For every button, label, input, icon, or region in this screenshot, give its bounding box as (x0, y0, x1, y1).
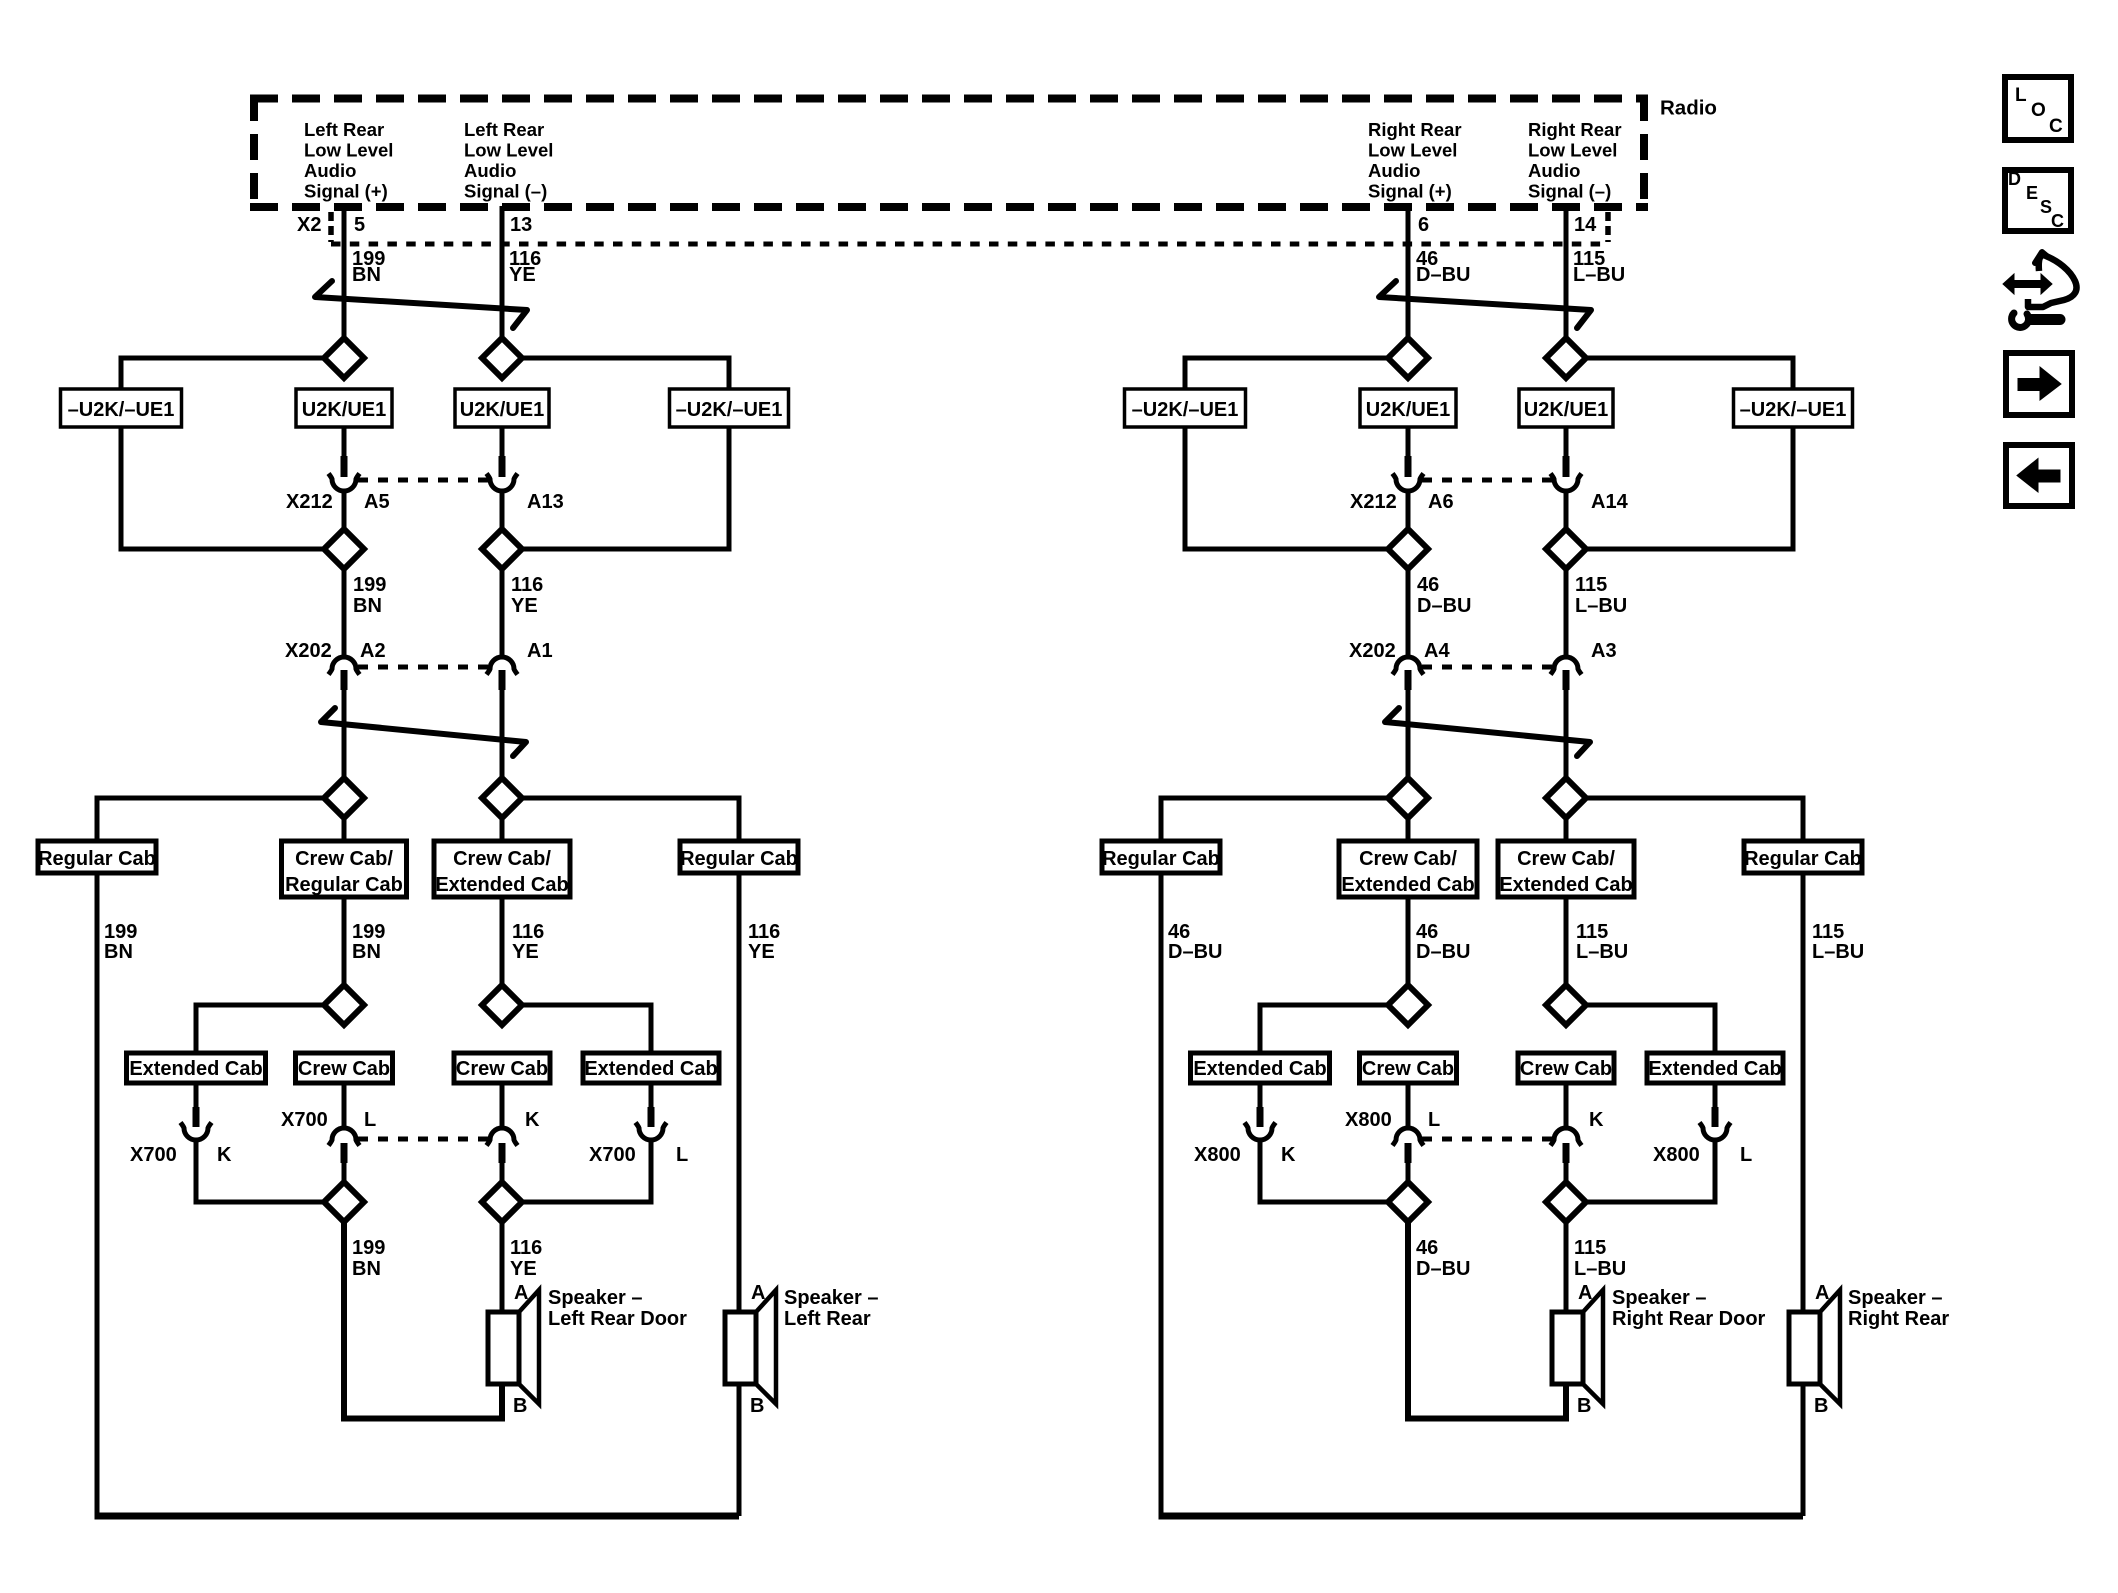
connector X800 pin K male pin (branch) (1257, 1107, 1264, 1127)
svg-text:A5: A5 (364, 491, 390, 513)
speaker - Left Rear Door symbol (488, 1312, 519, 1384)
sidebar icon forward arrow box (2006, 353, 2072, 415)
wire branch extended-cab right left (522, 1005, 651, 1055)
wire 46 to speaker B terminal (elbow) (1408, 1222, 1566, 1419)
wire extended-cab right to X700 left (649, 1083, 654, 1109)
svg-text:A14: A14 (1591, 491, 1629, 513)
option box Regular Cab (1102, 841, 1220, 873)
svg-text:YE: YE (748, 941, 775, 963)
wire branch regular-cab left left (97, 798, 324, 843)
svg-text:L–BU: L–BU (1812, 941, 1864, 963)
connector X800 pin L female terminal (branch) (1700, 1123, 1731, 1141)
connector X800 pin L male pin (branch) (1712, 1107, 1719, 1127)
svg-text:L: L (2015, 85, 2027, 106)
connector X800 pin K female terminal (1551, 1128, 1582, 1146)
option box U2K/UE1 (296, 389, 392, 427)
wire left2 to connector X212 (500, 427, 505, 457)
svg-text:K: K (525, 1109, 540, 1131)
wire 199 outer return loop left (95, 873, 100, 1516)
svg-text:A2: A2 (360, 640, 386, 662)
connector X212 pin A5 female terminal (329, 474, 360, 492)
svg-text:U2K/UE1: U2K/UE1 (1366, 399, 1450, 421)
speaker - Left Rear symbol (725, 1312, 756, 1384)
wire branch extended-cab right right (1586, 1005, 1715, 1055)
wire branch right option right (1586, 358, 1793, 391)
svg-text:U2K/UE1: U2K/UE1 (460, 399, 544, 421)
option box Crew Cab//Regular Cab (282, 841, 407, 897)
option box U2K/UE1 (455, 389, 549, 427)
wire left1 row3 to cab box (342, 818, 347, 843)
connector X800 pin K female terminal (branch) (1245, 1123, 1276, 1141)
Radio component dashed outline box (250, 95, 1648, 103)
connector X202 pin A1 female terminal (487, 657, 518, 675)
svg-text:L: L (1428, 1109, 1440, 1131)
wire left2 X700 to splice row5 (500, 1163, 505, 1182)
connector X212 pin A6 male pin (1405, 456, 1412, 477)
twisted-pair symbol lower left (321, 708, 526, 756)
splice diamond left wire2 row4 (482, 985, 522, 1025)
svg-text:116: 116 (748, 921, 780, 943)
svg-text:6: 6 (1418, 214, 1429, 236)
connector X202 dashed tie line (358, 665, 488, 670)
wire branch regular-cab right right (1586, 798, 1803, 843)
svg-text:L: L (676, 1144, 688, 1166)
splice diamond right wire1 row4 (1388, 985, 1428, 1025)
svg-text:X700: X700 (589, 1144, 636, 1166)
svg-text:A1: A1 (527, 640, 553, 662)
wire 116 YE radio to splice (500, 206, 505, 340)
connector X700 pin K female terminal (487, 1128, 518, 1146)
svg-text:D–BU: D–BU (1416, 1258, 1470, 1280)
sidebar icon twisted-wire repair (2035, 252, 2048, 263)
svg-text:115: 115 (1575, 574, 1607, 596)
svg-text:L–BU: L–BU (1574, 1258, 1626, 1280)
wire left1 cab to connector X700 (342, 1083, 347, 1128)
svg-text:X202: X202 (285, 640, 332, 662)
wire left2 cab box to splice row4 (500, 897, 505, 985)
connector X212 dashed tie line (358, 478, 488, 483)
svg-text:199: 199 (353, 574, 386, 596)
wire right1 row3 to cab box (1406, 818, 1411, 843)
svg-text:B: B (750, 1395, 764, 1417)
splice diamond right wire1 row1 (1388, 338, 1428, 378)
connector X212 pin A13 female terminal (487, 474, 518, 492)
wire left1 to connector X212 (342, 427, 347, 457)
connector X800 pin L female terminal (1393, 1128, 1424, 1146)
svg-text:L–BU: L–BU (1576, 941, 1628, 963)
splice diamond left wire1 row2 (324, 529, 364, 569)
twisted-pair symbol lower right (1385, 708, 1590, 756)
svg-text:Extended Cab: Extended Cab (1499, 874, 1632, 896)
connector X700 pin L male pin (branch) (648, 1107, 655, 1127)
wire 115 to speaker A terminal (1564, 1222, 1569, 1312)
wire left1 X212 to splice row2 (342, 491, 347, 530)
option box Regular Cab (680, 841, 798, 873)
wire branch-right X700 to splice row5 left (522, 1140, 651, 1202)
svg-text:Crew Cab/: Crew Cab/ (1517, 848, 1615, 870)
svg-text:Extended Cab: Extended Cab (435, 874, 568, 896)
svg-text:Extended Cab: Extended Cab (584, 1058, 717, 1080)
svg-text:B: B (513, 1395, 527, 1417)
connector X800 dashed tie line (1422, 1137, 1552, 1142)
svg-text:YE: YE (509, 264, 536, 286)
connector X800 pin K male pin (1563, 1143, 1570, 1163)
splice diamond right wire2 row3 (1546, 778, 1586, 818)
svg-text:L: L (364, 1109, 376, 1131)
sidebar icon back arrow box (2006, 445, 2072, 506)
svg-text:Right RearLow LevelAudioSignal: Right RearLow LevelAudioSignal (–) (1528, 119, 1622, 202)
wire left2 X202 to splice row3 (500, 690, 505, 778)
svg-text:YE: YE (510, 1258, 537, 1280)
wire branch left option left (121, 358, 324, 391)
connector X700 pin K female terminal (branch) (181, 1123, 212, 1141)
svg-text:Speaker –Right Rear: Speaker –Right Rear (1848, 1287, 1949, 1330)
wire right1 cab box to splice row4 (1406, 897, 1411, 985)
wire outer-right option to splice row2 right (1586, 427, 1793, 549)
wire left1 X700 to splice row5 (342, 1163, 347, 1182)
svg-text:46: 46 (1168, 921, 1190, 943)
svg-text:Left RearLow LevelAudioSignal: Left RearLow LevelAudioSignal (+) (304, 119, 393, 202)
wire right1 X800 to splice row5 (1406, 1163, 1411, 1182)
splice diamond right wire2 row4 (1546, 985, 1586, 1025)
svg-text:X800: X800 (1653, 1144, 1700, 1166)
wire right1 to connector X212 (1406, 427, 1411, 457)
connector X202 dashed tie line (1422, 665, 1552, 670)
wire branch left option right (1185, 358, 1388, 391)
svg-text:YE: YE (512, 941, 539, 963)
svg-text:K: K (217, 1144, 232, 1166)
svg-text:B: B (1814, 1395, 1828, 1417)
svg-text:K: K (1589, 1109, 1604, 1131)
option box Crew Cab (454, 1053, 550, 1083)
svg-text:Regular Cab: Regular Cab (680, 848, 798, 870)
wire left2 cab to connector X700 (500, 1083, 505, 1128)
option box Crew Cab (296, 1053, 393, 1083)
svg-text:Crew Cab: Crew Cab (1362, 1058, 1454, 1080)
connector X202 pin A3 male pin (1563, 670, 1570, 690)
svg-text:Speaker –Left Rear: Speaker –Left Rear (784, 1287, 879, 1330)
svg-text:199: 199 (352, 921, 385, 943)
splice diamond left wire2 row5 (482, 1182, 522, 1222)
twisted-pair symbol top left (315, 281, 527, 328)
wire right2 X800 to splice row5 (1564, 1163, 1569, 1182)
wire left2 X212 to splice row2 (500, 491, 505, 530)
connector X202 pin A4 female terminal (1393, 657, 1424, 675)
svg-text:Regular Cab: Regular Cab (1744, 848, 1862, 870)
svg-text:D–BU: D–BU (1416, 941, 1470, 963)
wire 46 outer return loop right (1159, 873, 1164, 1516)
wire 199 to speaker B terminal (elbow) (344, 1222, 502, 1419)
splice diamond left wire2 row1 (482, 338, 522, 378)
svg-text:Crew Cab/: Crew Cab/ (295, 848, 393, 870)
svg-text:BN: BN (352, 1258, 381, 1280)
svg-text:U2K/UE1: U2K/UE1 (302, 399, 386, 421)
svg-text:K: K (1281, 1144, 1296, 1166)
option box -U2K/-UE1 (1734, 389, 1853, 427)
svg-text:BN: BN (352, 941, 381, 963)
svg-text:116: 116 (510, 1237, 542, 1259)
svg-text:Crew Cab/: Crew Cab/ (1359, 848, 1457, 870)
wire 115 L&#8211;BU radio to splice (1564, 206, 1569, 340)
splice diamond right wire2 row2 (1546, 529, 1586, 569)
splice diamond right wire1 row2 (1388, 529, 1428, 569)
svg-text:Radio: Radio (1660, 97, 1717, 120)
svg-text:O: O (2031, 100, 2046, 121)
wire 115 outer to speaker A terminal (1801, 873, 1806, 1312)
wire branch-right X800 to splice row5 right (1586, 1140, 1715, 1202)
wire right1 cab to connector X800 (1406, 1083, 1411, 1128)
svg-text:Crew Cab/: Crew Cab/ (453, 848, 551, 870)
svg-text:D–BU: D–BU (1416, 264, 1470, 286)
svg-text:X212: X212 (286, 491, 333, 513)
connector X212 pin A14 female terminal (1551, 474, 1582, 492)
svg-text:Crew Cab: Crew Cab (298, 1058, 390, 1080)
connector X202 pin A2 male pin (341, 670, 348, 690)
splice diamond right wire2 row1 (1546, 338, 1586, 378)
svg-text:46: 46 (1416, 921, 1438, 943)
svg-text:E: E (2026, 183, 2038, 203)
svg-text:D–BU: D–BU (1417, 595, 1471, 617)
wire right2 X212 to splice row2 (1564, 491, 1569, 530)
wire outer-right option to splice row2 left (522, 427, 729, 549)
connector X202 pin A1 male pin (499, 670, 506, 690)
wire branch extended-cab left right (1260, 1005, 1388, 1055)
option box U2K/UE1 (1519, 389, 1613, 427)
wire branch right option left (522, 358, 729, 391)
wire right2 to connector X212 (1564, 427, 1569, 457)
option box Crew Cab/Extended Cab (1498, 841, 1634, 897)
svg-text:D–BU: D–BU (1168, 941, 1222, 963)
connector X202 pin A3 female terminal (1551, 657, 1582, 675)
svg-text:X212: X212 (1350, 491, 1397, 513)
svg-text:Regular Cab: Regular Cab (285, 874, 403, 896)
option box Extended Cab (1647, 1053, 1783, 1083)
svg-text:–U2K/–UE1: –U2K/–UE1 (68, 399, 175, 421)
connector X700 dashed tie line (358, 1137, 488, 1142)
svg-text:X800: X800 (1345, 1109, 1392, 1131)
svg-text:Extended Cab: Extended Cab (129, 1058, 262, 1080)
option box -U2K/-UE1 (1125, 389, 1246, 427)
wire 115 L&#8211;BU row2 to X202 (1564, 569, 1569, 657)
svg-text:C: C (2049, 116, 2063, 137)
svg-text:46: 46 (1417, 574, 1439, 596)
option box Extended Cab (583, 1053, 719, 1083)
svg-text:BN: BN (104, 941, 133, 963)
svg-text:Crew Cab: Crew Cab (1520, 1058, 1612, 1080)
svg-text:C: C (2051, 211, 2064, 231)
svg-text:L–BU: L–BU (1573, 264, 1625, 286)
svg-text:D: D (2008, 169, 2021, 189)
twisted-pair symbol top right (1379, 281, 1591, 328)
wire right2 cab to connector X800 (1564, 1083, 1569, 1128)
wire left1 cab box to splice row4 (342, 897, 347, 985)
option box Regular Cab (1744, 841, 1862, 873)
wire 46 D&#8211;BU radio to splice (1406, 206, 1411, 340)
wire 116 outer to speaker A terminal (737, 873, 742, 1312)
option box Extended Cab (1191, 1053, 1330, 1083)
svg-text:L: L (1740, 1144, 1752, 1166)
svg-text:Right RearLow LevelAudioSignal: Right RearLow LevelAudioSignal (+) (1368, 119, 1462, 202)
connector X700 pin K male pin (branch) (193, 1107, 200, 1127)
wire branch regular-cab left right (1161, 798, 1388, 843)
option box Crew Cab (1518, 1053, 1614, 1083)
wire outer-left option to splice row2 left (121, 427, 324, 549)
wire extended-cab left to X800 right (1258, 1083, 1263, 1109)
svg-text:A6: A6 (1428, 491, 1454, 513)
connector X2 dashed boundary line (331, 242, 1609, 247)
wire right2 row3 to cab box (1564, 818, 1569, 843)
svg-text:X800: X800 (1194, 1144, 1241, 1166)
splice diamond right wire1 row3 (1388, 778, 1428, 818)
splice diamond left wire1 row3 (324, 778, 364, 818)
svg-text:Crew Cab: Crew Cab (456, 1058, 548, 1080)
connector X700 pin L female terminal (branch) (636, 1123, 667, 1141)
svg-text:Extended Cab: Extended Cab (1193, 1058, 1326, 1080)
splice diamond left wire1 row1 (324, 338, 364, 378)
connector X202 pin A4 male pin (1405, 670, 1412, 690)
svg-text:115: 115 (1576, 921, 1608, 943)
svg-text:A13: A13 (527, 491, 564, 513)
wire 116 YE row2 to X202 (500, 569, 505, 657)
svg-text:X700: X700 (130, 1144, 177, 1166)
option box Crew Cab (1360, 1053, 1457, 1083)
svg-text:199: 199 (104, 921, 137, 943)
svg-text:116: 116 (512, 921, 544, 943)
wire right2 cab box to splice row4 (1564, 897, 1569, 985)
option box Crew Cab/Extended Cab (434, 841, 570, 897)
svg-text:Extended Cab: Extended Cab (1648, 1058, 1781, 1080)
wire 116 to speaker A terminal (500, 1222, 505, 1312)
svg-text:A3: A3 (1591, 640, 1617, 662)
svg-text:Left RearLow LevelAudioSignal: Left RearLow LevelAudioSignal (–) (464, 119, 553, 202)
svg-text:X202: X202 (1349, 640, 1396, 662)
option box U2K/UE1 (1360, 389, 1456, 427)
sidebar icon DESC box (2005, 170, 2071, 231)
svg-text:199: 199 (352, 1237, 385, 1259)
connector X700 pin L male pin (341, 1143, 348, 1163)
option box Regular Cab (38, 841, 156, 873)
wire extended-cab right to X800 right (1713, 1083, 1718, 1109)
svg-text:L–BU: L–BU (1575, 595, 1627, 617)
wire right2 X202 to splice row3 (1564, 690, 1569, 778)
option box Crew Cab//Extended Cab (1339, 841, 1477, 897)
connector X700 pin L female terminal (329, 1128, 360, 1146)
wire right1 X202 to splice row3 (1406, 690, 1411, 778)
connector X212 pin A13 male pin (499, 456, 506, 477)
svg-text:–U2K/–UE1: –U2K/–UE1 (676, 399, 783, 421)
connector X212 dashed tie line (1422, 478, 1552, 483)
speaker - Right Rear symbol (1789, 1312, 1820, 1384)
connector X202 pin A2 female terminal (329, 657, 360, 675)
splice diamond right wire2 row5 (1546, 1182, 1586, 1222)
wire left2 row3 to cab box (500, 818, 505, 843)
svg-text:46: 46 (1416, 1237, 1438, 1259)
svg-text:Regular Cab: Regular Cab (38, 848, 156, 870)
wire right1 X212 to splice row2 (1406, 491, 1411, 530)
svg-text:X700: X700 (281, 1109, 328, 1131)
connector X700 pin K male pin (499, 1143, 506, 1163)
svg-text:14: 14 (1574, 214, 1597, 236)
svg-text:X2: X2 (297, 214, 321, 236)
wire extended-cab left to X700 left (194, 1083, 199, 1109)
svg-text:A4: A4 (1424, 640, 1450, 662)
wire branch-left X700 to splice row5 left (196, 1140, 324, 1202)
connector X800 pin L male pin (1405, 1143, 1412, 1163)
wire branch-left X800 to splice row5 right (1260, 1140, 1388, 1202)
splice diamond left wire2 row2 (482, 529, 522, 569)
connector X212 pin A14 male pin (1563, 456, 1570, 477)
svg-text:116: 116 (511, 574, 543, 596)
option box -U2K/-UE1 (670, 389, 789, 427)
svg-text:115: 115 (1574, 1237, 1606, 1259)
svg-text:Extended Cab: Extended Cab (1341, 874, 1474, 896)
svg-text:Regular Cab: Regular Cab (1102, 848, 1220, 870)
connector X212 pin A6 female terminal (1393, 474, 1424, 492)
svg-text:–U2K/–UE1: –U2K/–UE1 (1740, 399, 1847, 421)
speaker - Right Rear Door symbol (1552, 1312, 1583, 1384)
wire outer-left option to splice row2 right (1185, 427, 1388, 549)
svg-text:5: 5 (354, 214, 365, 236)
sidebar icon LOC box (2005, 77, 2071, 140)
splice diamond left wire2 row3 (482, 778, 522, 818)
connector X2 dashed boundary tick left (328, 212, 334, 242)
connector X2 dashed boundary tick right (1605, 212, 1611, 242)
wire branch regular-cab right left (522, 798, 739, 843)
svg-text:U2K/UE1: U2K/UE1 (1524, 399, 1608, 421)
option box Extended Cab (127, 1053, 266, 1083)
splice diamond right wire1 row5 (1388, 1182, 1428, 1222)
wire 199 BN row2 to X202 (342, 569, 347, 657)
wire branch extended-cab left left (196, 1005, 324, 1055)
svg-text:BN: BN (353, 595, 382, 617)
svg-text:B: B (1577, 1395, 1591, 1417)
wire left1 X202 to splice row3 (342, 690, 347, 778)
svg-text:–U2K/–UE1: –U2K/–UE1 (1132, 399, 1239, 421)
svg-text:YE: YE (511, 595, 538, 617)
svg-text:115: 115 (1812, 921, 1844, 943)
wire 46 D&#8211;BU row2 to X202 (1406, 569, 1411, 657)
splice diamond left wire1 row5 (324, 1182, 364, 1222)
connector X212 pin A5 male pin (341, 456, 348, 477)
svg-text:13: 13 (510, 214, 532, 236)
wire 199 BN radio to splice (342, 206, 347, 340)
svg-text:BN: BN (352, 264, 381, 286)
splice diamond left wire1 row4 (324, 985, 364, 1025)
option box -U2K/-UE1 (61, 389, 182, 427)
